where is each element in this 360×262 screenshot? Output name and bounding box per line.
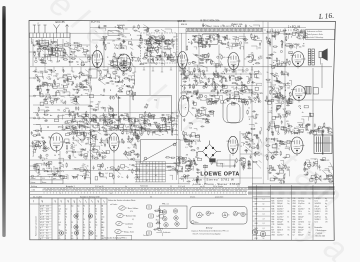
- terminal: [285, 131, 287, 133]
- capacitor C199: [207, 119, 209, 123]
- edge terminal: [30, 95, 36, 97]
- wire: [133, 66, 135, 67]
- svg-text:1k: 1k: [285, 143, 287, 145]
- junction: [302, 42, 305, 45]
- wire: [148, 123, 151, 125]
- junction: [68, 121, 71, 124]
- capacitor C161: [251, 82, 255, 84]
- wire: [299, 128, 305, 131]
- wire: [150, 56, 153, 62]
- svg-text:3n: 3n: [112, 117, 114, 119]
- wire: [294, 132, 300, 134]
- resistor R241: [101, 152, 106, 153]
- svg-text:0,1/250 V: 0,1/250 V: [277, 216, 283, 218]
- capacitor C155: [212, 95, 216, 97]
- wire: [235, 37, 239, 40]
- component box: [110, 116, 113, 119]
- wire: [106, 140, 108, 144]
- svg-text:12k: 12k: [121, 85, 124, 87]
- wire: [220, 61, 222, 65]
- capacitor C166: [194, 80, 198, 82]
- wire: [271, 123, 275, 128]
- component box: [88, 57, 91, 59]
- svg-text:g -7: g -7: [40, 227, 43, 229]
- component box: [52, 49, 55, 52]
- svg-text:470: 470: [231, 87, 234, 89]
- junction: [82, 84, 85, 87]
- component box: [286, 44, 290, 46]
- wire: [99, 80, 106, 85]
- svg-text:70: 70: [48, 136, 50, 138]
- svg-text:1,2: 1,2: [263, 199, 265, 201]
- wire: [275, 81, 280, 83]
- svg-text:60: 60: [49, 56, 51, 58]
- svg-text:3n: 3n: [81, 95, 83, 97]
- wire horizontal: [30, 170, 178, 172]
- wire horizontal: [179, 32, 309, 34]
- wire: [155, 134, 161, 136]
- component box: [152, 36, 155, 38]
- svg-text:8k2: 8k2: [197, 78, 200, 80]
- wire: [197, 94, 199, 98]
- svg-text:2: 2: [68, 202, 69, 204]
- terminal: [71, 145, 73, 147]
- capacitor C116: [92, 114, 96, 116]
- svg-text:R76: R76: [293, 214, 296, 216]
- junction: [115, 43, 118, 46]
- wire: [102, 140, 107, 143]
- svg-text:30p: 30p: [76, 62, 79, 64]
- component box: [92, 119, 96, 122]
- svg-text:2n: 2n: [104, 75, 106, 77]
- resistor R206: [288, 126, 293, 127]
- component box: [318, 128, 322, 130]
- svg-text:220: 220: [46, 90, 49, 92]
- terminal: [203, 86, 205, 88]
- component box: [219, 40, 222, 42]
- svg-text:50p: 50p: [66, 84, 69, 86]
- component box: [135, 131, 139, 134]
- terminal: [99, 79, 101, 81]
- wire: [81, 119, 86, 123]
- component box: [281, 127, 284, 130]
- dial scale band: [186, 28, 263, 31]
- capacitor C158: [229, 75, 231, 79]
- capacitor C41: [198, 38, 200, 42]
- terminal: [200, 95, 202, 97]
- capacitor C89: [117, 97, 121, 99]
- svg-text:B 250 C 900k 2/3k: B 250 C 900k 2/3k: [201, 21, 221, 23]
- wire: [297, 123, 302, 128]
- junction: [203, 24, 206, 27]
- svg-text:12k: 12k: [296, 37, 299, 39]
- capacitor C75: [80, 84, 84, 86]
- resistor R72: [289, 60, 290, 65]
- capacitor C86: [39, 79, 41, 83]
- junction: [192, 159, 195, 162]
- svg-text:50p: 50p: [57, 110, 60, 112]
- svg-text:50: 50: [263, 238, 265, 240]
- component box: [202, 45, 206, 48]
- wire: [71, 102, 77, 105]
- resistor R107: [41, 127, 42, 132]
- resistor R246: [127, 154, 132, 155]
- svg-text:50p: 50p: [226, 95, 229, 97]
- svg-text:30: 30: [83, 233, 85, 235]
- junction: [161, 133, 164, 136]
- svg-text:ECH 81: ECH 81: [91, 19, 101, 23]
- wire: [96, 105, 99, 111]
- stub component: [197, 67, 199, 70]
- resistor R84: [54, 79, 55, 84]
- capacitor C260: [189, 134, 191, 138]
- svg-text:Anhang !: Anhang !: [206, 227, 214, 230]
- wire: [200, 42, 202, 45]
- wire: [37, 91, 40, 97]
- resistor R99: [128, 91, 133, 92]
- wire: [38, 46, 42, 48]
- wire: [116, 45, 119, 49]
- capacitor C241: [79, 154, 83, 156]
- antenna terminal strip: [30, 33, 71, 38]
- svg-text:0,2: 0,2: [88, 82, 90, 84]
- wire: [284, 86, 290, 87]
- wire vertical: [113, 151, 115, 184]
- wire: [57, 51, 60, 56]
- svg-text:0,5/250 V: 0,5/250 V: [277, 209, 283, 211]
- svg-text:e2: e2: [155, 168, 157, 170]
- svg-text:0,6: 0,6: [102, 227, 104, 229]
- svg-text:220 k: 220 k: [298, 211, 302, 213]
- wire: [214, 66, 221, 68]
- wire: [157, 43, 159, 45]
- svg-text:R58: R58: [293, 209, 296, 211]
- resistor R272: [246, 132, 247, 137]
- svg-text:100k: 100k: [219, 65, 223, 67]
- wire: [76, 136, 81, 141]
- capacitor C214: [288, 97, 290, 101]
- resistor R51: [272, 31, 277, 32]
- resistor R242: [84, 135, 85, 140]
- svg-text:5k6: 5k6: [55, 168, 58, 170]
- resistor R145: [128, 119, 133, 120]
- terminal: [105, 117, 107, 119]
- wire: [194, 129, 197, 131]
- terminal: [318, 126, 320, 128]
- svg-text:70: 70: [83, 206, 85, 208]
- svg-text:a1: a1: [146, 165, 148, 167]
- svg-text:0,5M: 0,5M: [246, 57, 250, 59]
- resistor R115: [108, 122, 113, 123]
- stub component: [116, 67, 118, 70]
- wire horizontal: [265, 99, 332, 101]
- wire: [131, 80, 134, 86]
- svg-text:1n5: 1n5: [139, 123, 142, 125]
- wire: [161, 64, 165, 66]
- capacitor C50: [273, 34, 275, 38]
- svg-text:50: 50: [263, 204, 265, 206]
- svg-text:3n: 3n: [98, 173, 100, 175]
- resistor R135: [83, 127, 88, 128]
- resistor R141: [83, 117, 84, 122]
- svg-text:25: 25: [83, 230, 85, 232]
- wire vertical: [252, 160, 254, 240]
- component box: [128, 42, 131, 44]
- junction: [217, 84, 220, 87]
- component box: [43, 82, 46, 84]
- capacitor C213: [280, 115, 282, 119]
- resistor R262: [240, 158, 245, 159]
- resistor R44: [293, 29, 298, 30]
- wire: [143, 116, 145, 121]
- capacitor C82: [51, 83, 53, 87]
- capacitor C232: [32, 141, 34, 145]
- svg-text:1k: 1k: [132, 29, 134, 31]
- junction: [121, 132, 124, 135]
- svg-text:500: 500: [60, 166, 63, 168]
- svg-text:60: 60: [172, 46, 174, 48]
- junction: [254, 101, 257, 104]
- junction: [239, 73, 242, 76]
- capacitor C74: [33, 70, 37, 72]
- junction: [69, 112, 72, 115]
- svg-text:0,5M: 0,5M: [110, 96, 114, 98]
- wire: [106, 122, 110, 128]
- resistor R42: [271, 35, 276, 36]
- capacitor C215: [277, 80, 281, 82]
- terminal: [48, 84, 51, 87]
- capacitor C201: [247, 132, 251, 134]
- svg-text:0,05: 0,05: [268, 41, 271, 43]
- svg-text:k 1,6: k 1,6: [40, 230, 44, 232]
- svg-text:2n: 2n: [267, 72, 269, 74]
- terminal: [255, 98, 257, 100]
- terminal: [34, 143, 36, 145]
- junction: [161, 128, 164, 131]
- terminal: [85, 157, 87, 159]
- resistor R93: [125, 85, 130, 86]
- capacitor C129: [118, 115, 120, 119]
- capacitor C44: [209, 35, 211, 39]
- resistor R222: [327, 132, 332, 133]
- junction: [129, 34, 132, 37]
- resistor R127: [71, 126, 76, 127]
- terminal: [191, 95, 193, 97]
- junction: [284, 89, 287, 92]
- wire: [87, 137, 93, 139]
- wire: [55, 45, 56, 51]
- wire: [285, 45, 291, 49]
- resistor R128: [151, 115, 156, 116]
- svg-text:10k: 10k: [255, 123, 258, 125]
- component box: [209, 99, 212, 101]
- wire: [87, 77, 90, 81]
- capacitor C160: [193, 69, 195, 73]
- terminal: [76, 84, 78, 86]
- wire: [35, 113, 38, 116]
- junction: [299, 107, 302, 110]
- capacitor C197: [208, 111, 212, 113]
- junction: [109, 89, 112, 92]
- component box: [242, 100, 245, 103]
- svg-text:470: 470: [90, 102, 93, 104]
- resistor R155: [187, 97, 188, 102]
- svg-text:30p: 30p: [46, 43, 49, 45]
- component box: [235, 77, 239, 80]
- junction: [43, 162, 46, 165]
- bridge rectifier B250C900: [198, 141, 221, 163]
- wire: [35, 89, 41, 93]
- svg-text:5k6: 5k6: [207, 101, 210, 103]
- svg-text:10k: 10k: [127, 126, 130, 128]
- wire: [307, 133, 313, 135]
- wire: [71, 128, 76, 134]
- junction: [257, 56, 260, 59]
- junction: [299, 125, 302, 128]
- wire: [93, 135, 96, 139]
- terminal: [44, 146, 46, 148]
- wire vertical: [53, 38, 55, 44]
- component box: [238, 77, 241, 80]
- resistor R16: [52, 47, 53, 52]
- svg-text:1k: 1k: [319, 169, 321, 171]
- svg-text:Spannungen gemessen: Spannungen gemessen: [36, 216, 38, 236]
- scan edge bar: [2, 6, 5, 237]
- wire: [279, 87, 286, 89]
- svg-text:4u: 4u: [125, 36, 127, 38]
- wire: [198, 46, 202, 48]
- wire: [121, 46, 126, 50]
- svg-text:C71: C71: [272, 214, 275, 216]
- wire: [196, 118, 202, 120]
- capacitor C230: [42, 147, 46, 149]
- svg-text:220: 220: [39, 85, 42, 87]
- terminal: [37, 86, 39, 88]
- svg-text:2n: 2n: [159, 56, 161, 58]
- wire horizontal: [30, 159, 140, 161]
- stub component: [188, 67, 190, 72]
- wire: [282, 74, 288, 76]
- junction: [158, 122, 161, 125]
- svg-text:2n: 2n: [53, 76, 55, 78]
- svg-text:4u: 4u: [302, 112, 304, 114]
- svg-text:1n5: 1n5: [155, 131, 158, 133]
- svg-text:2000 pF: 2000 pF: [277, 222, 283, 224]
- capacitor C11: [48, 54, 52, 56]
- resistor R13: [68, 61, 73, 62]
- wire vertical: [96, 44, 98, 68]
- capacitor C242: [72, 136, 74, 140]
- wire: [235, 45, 241, 49]
- wire: [48, 60, 52, 62]
- svg-text:1,5 k: 1,5 k: [277, 232, 281, 234]
- terminal: [254, 97, 256, 99]
- resistor R162: [232, 83, 237, 84]
- svg-text:2 x ECL 86: 2 x ECL 86: [288, 26, 301, 29]
- component box: [56, 53, 59, 56]
- wire: [137, 154, 139, 156]
- component box: [56, 48, 59, 51]
- wire: [128, 64, 132, 66]
- terminal: [121, 131, 123, 133]
- svg-text:1 52: 1 52: [32, 190, 36, 192]
- wire vertical: [103, 38, 105, 68]
- svg-text:log: log: [288, 201, 290, 203]
- wire: [71, 115, 73, 121]
- wire: [278, 32, 285, 35]
- wire: [49, 46, 53, 49]
- svg-text:6,3: 6,3: [46, 233, 48, 235]
- wire: [58, 88, 64, 94]
- wire: [76, 125, 82, 131]
- terminal: [225, 90, 227, 92]
- capacitor C190: [227, 98, 229, 102]
- terminal: [172, 124, 174, 126]
- svg-text:70: 70: [147, 104, 149, 106]
- resistor R197: [288, 99, 293, 100]
- wire: [44, 99, 46, 101]
- capacitor C126: [141, 126, 143, 130]
- svg-text:8k2: 8k2: [147, 48, 150, 50]
- terminal: [113, 114, 115, 116]
- wire: [238, 70, 243, 72]
- wire: [204, 59, 211, 63]
- junction: [44, 60, 47, 63]
- capacitor C165: [214, 81, 216, 85]
- wire: [64, 123, 69, 124]
- tube V6 ECLL800b: [291, 86, 307, 103]
- resistor R137: [74, 114, 75, 119]
- resistor R269: [255, 152, 260, 153]
- wire: [239, 39, 245, 42]
- resistor R65: [199, 58, 204, 59]
- terminal: [133, 26, 135, 28]
- component box: [37, 86, 40, 89]
- resistor R164: [183, 77, 188, 78]
- wire: [85, 94, 88, 96]
- resistor R117: [90, 131, 91, 136]
- capacitor C80: [63, 79, 65, 83]
- resistor R175: [241, 87, 242, 92]
- wire: [255, 37, 258, 39]
- capacitor C220: [297, 129, 301, 131]
- wire: [100, 156, 105, 160]
- wire: [280, 41, 282, 46]
- wire: [137, 45, 143, 48]
- resistor R185: [215, 84, 216, 89]
- wire: [89, 76, 91, 79]
- junction: [89, 141, 92, 144]
- svg-text:3: 3: [83, 208, 84, 210]
- wire: [113, 62, 120, 66]
- junction: [255, 83, 258, 86]
- wire: [234, 96, 239, 102]
- wire: [294, 133, 298, 134]
- component box: [272, 117, 275, 120]
- capacitor C92: [122, 79, 124, 83]
- wire: [86, 75, 89, 79]
- terminal: [305, 125, 307, 127]
- capacitor C134: [158, 128, 162, 130]
- svg-text:5k6: 5k6: [168, 44, 171, 46]
- wire: [158, 127, 163, 129]
- svg-text:500: 500: [144, 40, 147, 42]
- wire horizontal: [180, 139, 200, 141]
- component box: [107, 74, 111, 77]
- capacitor C12: [39, 59, 43, 61]
- resistor R198: [281, 96, 286, 97]
- svg-text:30p: 30p: [67, 95, 70, 97]
